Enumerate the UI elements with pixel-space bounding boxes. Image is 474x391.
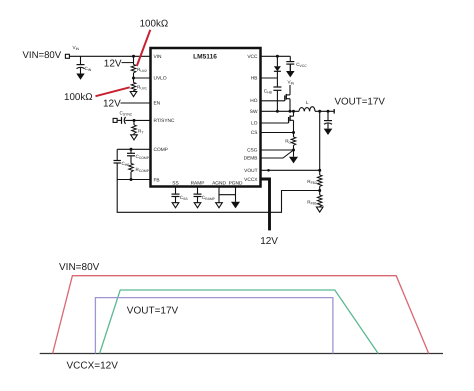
ground CSG (filled) [289, 150, 298, 163]
pin RAMP label [191, 180, 205, 186]
op-amp U1 LM5116 body [151, 48, 261, 187]
svg-text:VIN=80V: VIN=80V [23, 50, 62, 61]
resistor RT [132, 120, 144, 134]
wire UVLO divider top [133, 56, 135, 64]
ground CIN (filled) [76, 74, 84, 80]
wire FB to divider tap [117, 180, 320, 213]
transistor Q2 low-side [289, 111, 294, 132]
pin SW label [250, 109, 258, 115]
waveform axis baseline [40, 353, 443, 355]
ground CRAMP (open) [194, 203, 201, 208]
svg-text:VCC: VCC [247, 54, 258, 60]
pin LO label [251, 121, 258, 127]
pin DEMB label [244, 156, 258, 162]
resistor RUV1 [131, 83, 147, 91]
resistor RCOMP [129, 164, 150, 180]
wire LO to Q2 gate [261, 122, 289, 124]
transistor Q1 high-side [285, 94, 290, 111]
waveform label VCCX=12V [67, 361, 119, 372]
svg-text:100kΩ: 100kΩ [140, 18, 169, 29]
svg-text:VOUT=17V: VOUT=17V [335, 97, 386, 108]
pin UVLO label [154, 76, 167, 82]
resistor RUV2 [131, 65, 147, 73]
ground CVCC (filled) [286, 71, 295, 77]
pin HB label [251, 76, 258, 82]
node VIN=80V label [23, 50, 62, 61]
svg-text:12V: 12V [104, 59, 122, 70]
capacitor CHF [114, 149, 130, 179]
pin SS label [172, 180, 178, 186]
wire VCCX thick to 12V [261, 179, 270, 230]
svg-text:CS: CS [251, 130, 258, 136]
pin PGND label [229, 180, 243, 186]
wire CSG [261, 149, 296, 152]
capacitor CRAMP [194, 187, 216, 203]
annotation leader to RUV2 (red) [137, 30, 151, 66]
pin VCC label [247, 54, 258, 60]
node 12V bottom label [260, 236, 278, 247]
svg-text:HO: HO [250, 98, 257, 104]
resistor RFB1 [307, 195, 322, 206]
wire FB [117, 178, 150, 181]
svg-text:CSG: CSG [247, 148, 258, 154]
node VIN at Q1 drain [288, 80, 295, 95]
node UVLO junction dot [132, 55, 135, 58]
svg-text:UVLO: UVLO [154, 76, 167, 82]
terminal VOUT tick [333, 109, 335, 114]
node 12V label at EN [103, 99, 151, 110]
svg-text:DEMB: DEMB [244, 156, 258, 162]
svg-text:VOUT: VOUT [244, 168, 257, 174]
annotation 100k lower label [64, 92, 93, 103]
pin EN label [154, 101, 161, 107]
svg-text:L: L [306, 100, 309, 105]
waveform label VIN=80V [59, 262, 100, 273]
capacitor CSYNC [117, 111, 133, 124]
wire DEMB diagonal [261, 150, 294, 158]
wire VOUT pin to rail [261, 169, 322, 172]
pin VIN label [154, 54, 163, 60]
capacitor CHB [264, 78, 282, 111]
waveform label VOUT=17V [127, 306, 179, 317]
wire AGND to PGND [219, 194, 236, 196]
inductor L [299, 100, 315, 111]
pin VCCX label [244, 177, 258, 183]
capacitor CVCC [286, 56, 307, 71]
svg-text:FB: FB [154, 177, 160, 183]
capacitor CCOMP [127, 149, 150, 163]
wire RUV2 to RUV1 [133, 73, 135, 83]
svg-text:12V: 12V [103, 99, 121, 110]
resistor RC [285, 133, 296, 151]
wire VIN input to IC [70, 55, 151, 57]
svg-text:VCCX: VCCX [244, 177, 258, 183]
wire SW [261, 110, 300, 113]
ground RUV1 (open) [130, 91, 137, 97]
wire COMP [117, 148, 150, 151]
wire L to output terminal [315, 110, 334, 113]
ground RT (open) [131, 133, 138, 140]
svg-text:VOUT=17V: VOUT=17V [127, 306, 179, 317]
node 12V label at RUV2 [104, 59, 134, 70]
resistor RFB2 [307, 175, 322, 195]
svg-text:EN: EN [154, 101, 161, 107]
capacitor CSS [172, 187, 189, 203]
annotation leader to RUV1 (red) [96, 87, 130, 96]
ground AGND (open) [216, 203, 223, 208]
wire CSYNC to RT/SYNC pin [125, 119, 150, 122]
ground CSS (open) [172, 203, 179, 208]
svg-text:LM5116: LM5116 [193, 54, 217, 61]
svg-text:100kΩ: 100kΩ [64, 92, 93, 103]
pin RT/SYNC label [154, 118, 176, 124]
svg-text:HB: HB [251, 76, 258, 82]
pin AGND label [212, 180, 226, 186]
svg-text:VCCX=12V: VCCX=12V [67, 361, 119, 372]
pin FB label [154, 177, 160, 183]
pin HO label [250, 98, 257, 104]
capacitor CIN [77, 56, 92, 73]
waveform VIN trace (red) [53, 276, 429, 354]
ground COUT (filled) [324, 129, 333, 135]
waveform VCCX trace (purple) [95, 298, 333, 354]
svg-text:VIN=80V: VIN=80V [59, 262, 100, 273]
svg-text:LO: LO [251, 121, 258, 127]
wire VCC [261, 55, 291, 58]
wire AGND [218, 187, 220, 203]
wire UVLO pin [132, 77, 151, 80]
wire VOUT rail [319, 111, 321, 175]
diode D1 bootstrap [274, 56, 281, 78]
capacitor COUT [324, 111, 332, 128]
svg-text:VIN: VIN [154, 54, 163, 60]
pin CSG label [247, 148, 258, 154]
svg-text:SS: SS [172, 180, 178, 186]
pin CS label [251, 130, 258, 136]
svg-text:COMP: COMP [154, 147, 168, 153]
terminal VIN input square [65, 45, 79, 59]
ground RFB1 (open) [316, 206, 323, 212]
svg-text:SW: SW [250, 109, 258, 115]
wire HO to Q1 gate [261, 100, 285, 102]
svg-text:AGND: AGND [212, 180, 226, 186]
svg-text:RAMP: RAMP [191, 180, 205, 186]
terminal SYNC square [113, 118, 117, 122]
pin COMP label [154, 147, 168, 153]
svg-text:PGND: PGND [229, 180, 243, 186]
pin VOUT label [244, 168, 257, 174]
waveform VOUT trace (green) [100, 290, 379, 354]
wire CS [261, 131, 296, 134]
wire HB [261, 77, 278, 79]
ground PGND (filled) [231, 202, 240, 209]
wire PGND [235, 187, 237, 202]
annotation 100k upper label [140, 18, 169, 29]
svg-text:12V: 12V [260, 236, 278, 247]
svg-text:RT/SYNC: RT/SYNC [154, 118, 176, 124]
node VOUT=17V label [335, 97, 386, 108]
